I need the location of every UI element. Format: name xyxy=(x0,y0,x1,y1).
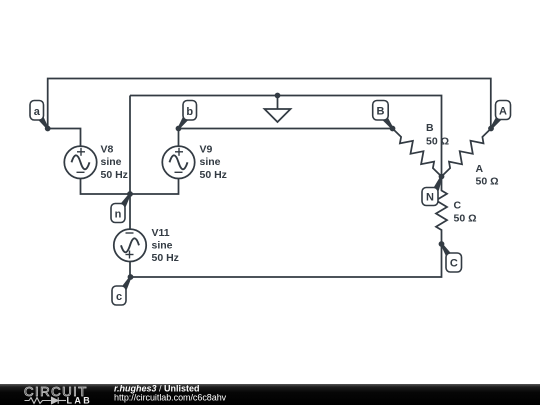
junction dot ground tap xyxy=(275,93,281,99)
svg-text:b: b xyxy=(186,106,193,118)
svg-text:V11: V11 xyxy=(152,227,170,239)
voltage source V11 sine 50Hz (flipped polarity) xyxy=(114,229,146,261)
svg-text:c: c xyxy=(116,291,122,303)
resistor A 50Ω xyxy=(442,129,492,177)
node flag B xyxy=(373,101,394,130)
wire bottom rail c to node C xyxy=(130,244,442,277)
node flag C xyxy=(441,243,462,272)
junction dot node c xyxy=(128,274,134,280)
svg-text:http://circuitlab.com/c6c8ahv: http://circuitlab.com/c6c8ahv xyxy=(114,393,227,403)
wire net a: top rail from node a up across to node A xyxy=(48,79,491,129)
svg-text:LAB: LAB xyxy=(67,395,93,405)
wire vertical n net through junction to V11 top xyxy=(129,96,131,230)
svg-text:a: a xyxy=(34,106,41,118)
svg-text:A: A xyxy=(499,105,507,117)
footer bar xyxy=(0,384,540,405)
svg-text:V9: V9 xyxy=(200,144,213,156)
svg-text:N: N xyxy=(426,192,434,204)
svg-text:V8: V8 xyxy=(101,144,114,156)
svg-text:sine: sine xyxy=(101,156,122,168)
node flag n xyxy=(111,193,131,222)
node flag a xyxy=(30,101,49,130)
node flag N xyxy=(422,176,443,205)
wire node b to V9 top xyxy=(178,129,180,147)
resistor B 50Ω xyxy=(393,129,442,177)
junction dot node n xyxy=(127,191,133,197)
svg-text:sine: sine xyxy=(152,240,173,252)
svg-text:C: C xyxy=(450,258,458,270)
voltage source V9 sine 50Hz xyxy=(162,146,194,178)
resistor C 50Ω xyxy=(436,177,447,245)
junction dot node b xyxy=(176,126,182,132)
svg-text:50 Ω: 50 Ω xyxy=(476,176,499,188)
junction dot node C xyxy=(439,241,445,247)
svg-text:50 Ω: 50 Ω xyxy=(454,213,477,225)
footer logo resistor-diode glyph xyxy=(25,397,67,403)
wire node b to node B xyxy=(179,128,393,130)
svg-text:50 Hz: 50 Hz xyxy=(101,169,128,181)
svg-text:50 Ω: 50 Ω xyxy=(426,136,449,148)
svg-text:B: B xyxy=(426,122,434,134)
svg-text:50 Hz: 50 Hz xyxy=(152,252,179,264)
voltage source V8 sine 50Hz xyxy=(64,146,96,178)
ground xyxy=(265,96,291,123)
svg-text:sine: sine xyxy=(200,156,221,168)
junction dot node B xyxy=(390,126,396,132)
node flag b xyxy=(178,101,197,130)
junction dot node N xyxy=(439,174,445,180)
wire V9 bottom to junction n xyxy=(130,178,179,194)
node flag A xyxy=(490,101,510,130)
svg-text:B: B xyxy=(377,106,385,118)
svg-text:n: n xyxy=(115,209,122,221)
node flag c xyxy=(112,277,132,306)
wire V11 bottom to junction c xyxy=(129,262,131,278)
wire node a to V8 top xyxy=(48,129,81,147)
svg-text:A: A xyxy=(476,163,484,175)
junction dot node a xyxy=(45,126,51,132)
svg-text:50 Hz: 50 Hz xyxy=(200,169,227,181)
wire n net top rail to node N vertical xyxy=(130,96,442,177)
wire V8 bottom to junction n xyxy=(81,178,131,194)
junction dot node A xyxy=(488,126,494,132)
svg-text:C: C xyxy=(454,200,462,212)
